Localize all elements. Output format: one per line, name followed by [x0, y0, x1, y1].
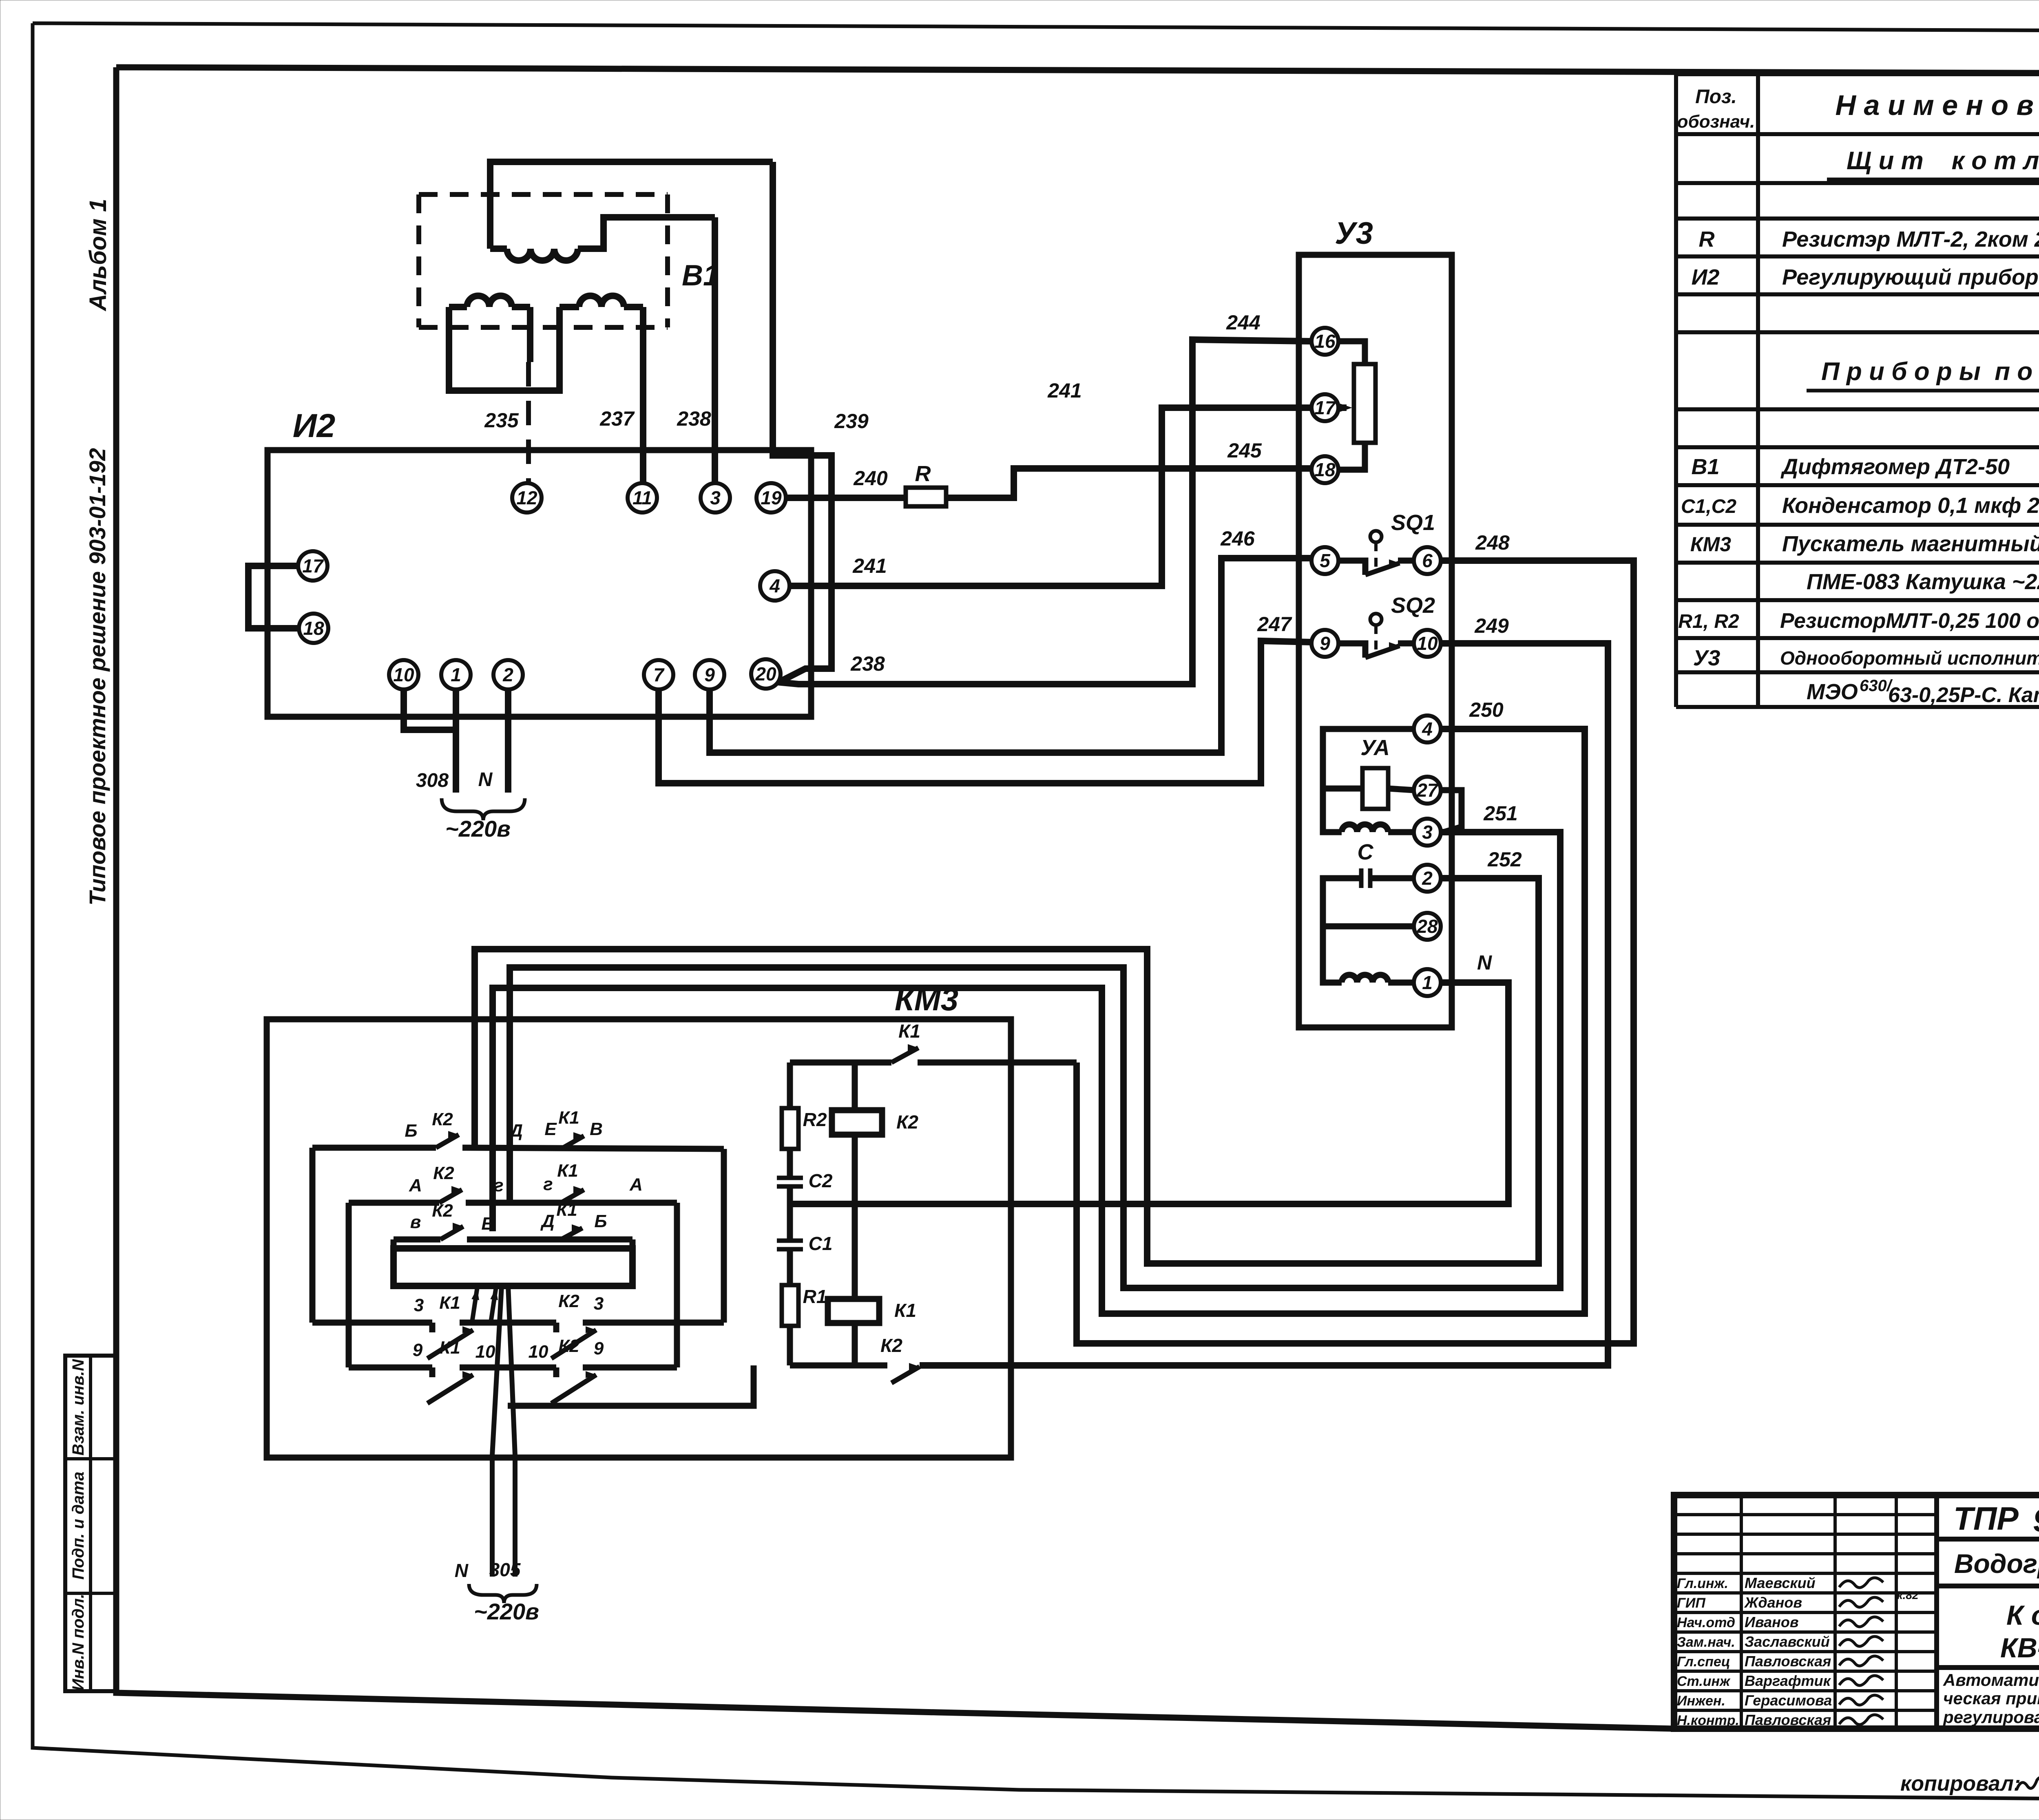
svg-text:И2: И2 — [1692, 265, 1720, 289]
terminal У3-2 — [1414, 865, 1441, 892]
svg-text:В: В — [590, 1119, 603, 1139]
B1 secondary winding left — [449, 304, 467, 310]
wire 246 from terminal 9 — [710, 558, 1311, 753]
svg-text:10: 10 — [475, 1342, 495, 1362]
svg-text:18: 18 — [1314, 459, 1336, 480]
SQ1 blade — [1365, 563, 1400, 575]
svg-text:1: 1 — [451, 664, 461, 685]
И2 hook terminal 10 to 1 — [404, 689, 456, 730]
transducer B1 dashed box — [419, 192, 668, 197]
wire 241 — [790, 408, 1347, 586]
svg-text:N: N — [455, 1560, 469, 1581]
svg-text:К о т е л: К о т е л — [2006, 1600, 2039, 1631]
svg-text:Подп. и дата: Подп. и дата — [69, 1472, 87, 1580]
svg-text:В1: В1 — [1691, 455, 1719, 479]
coil К2 body — [832, 1110, 882, 1135]
svg-text:Н.контр.: Н.контр. — [1677, 1713, 1739, 1728]
svg-text:Поз.: Поз. — [1695, 86, 1737, 108]
svg-text:238: 238 — [677, 407, 711, 430]
svg-text:копировал:: копировал: — [1900, 1772, 2021, 1796]
svg-text:248: 248 — [1475, 531, 1510, 554]
svg-text:К1: К1 — [556, 1200, 577, 1220]
wire 250 — [493, 729, 1585, 1314]
contact К2 rowD — [551, 1330, 596, 1358]
contact К1 row2 — [561, 1190, 584, 1203]
svg-text:Е: Е — [481, 1214, 494, 1234]
svg-text:Дифтягомер ДТ2-50: Дифтягомер ДТ2-50 — [1780, 455, 2010, 479]
contact К2 row3 — [440, 1226, 463, 1239]
curly brace motor — [469, 1584, 537, 1603]
svg-text:С2: С2 — [809, 1170, 833, 1191]
terminal И2-4 — [760, 571, 790, 601]
svg-text:N: N — [1477, 951, 1492, 974]
svg-text:ГИП: ГИП — [1677, 1595, 1706, 1611]
svg-text:1: 1 — [1422, 972, 1433, 993]
svg-text:К1: К1 — [439, 1338, 460, 1358]
КМ3 contact row D (3 K1 / K2 3) — [312, 1320, 432, 1326]
svg-text:г: г — [494, 1175, 503, 1195]
svg-text:Альбом 1: Альбом 1 — [85, 199, 111, 311]
terminal И2-9 — [695, 660, 724, 689]
svg-text:ческая принципиальная: ческая принципиальная — [1943, 1689, 2039, 1708]
terminal И2-18 — [299, 614, 328, 643]
svg-text:Зам.нач.: Зам.нач. — [1677, 1634, 1735, 1650]
svg-text:903-01-192: 903-01-192 — [2033, 1502, 2039, 1538]
terminal У3-5 — [1311, 547, 1338, 574]
svg-text:К1: К1 — [439, 1293, 460, 1313]
terminal И2-11 — [628, 483, 657, 512]
mechanical interlock bar — [394, 1248, 632, 1286]
svg-text:А: А — [409, 1175, 422, 1195]
wire 240 with resistor R — [786, 495, 906, 501]
terminal И2-19 — [756, 483, 786, 512]
svg-text:247: 247 — [1257, 613, 1292, 636]
svg-text:19: 19 — [761, 487, 782, 508]
terminal У3-28 — [1414, 913, 1441, 940]
svg-text:R: R — [915, 462, 931, 486]
wire 238 from B1 to terminal 3 — [712, 217, 718, 484]
terminal У3-17 — [1311, 394, 1338, 421]
svg-text:С1,С2: С1,С2 — [1681, 496, 1736, 517]
contact К1 rowE — [427, 1375, 473, 1403]
capacitor C2 plates — [777, 1176, 803, 1180]
terminal У3-10 — [1414, 630, 1441, 657]
svg-text:4: 4 — [769, 575, 780, 596]
svg-text:9: 9 — [413, 1340, 423, 1360]
svg-text:РезисторМЛТ-0,25 100 ом 0,25: РезисторМЛТ-0,25 100 ом 0,25 вт — [1780, 609, 2039, 633]
svg-text:R1: R1 — [803, 1286, 827, 1307]
svg-text:17: 17 — [302, 555, 324, 576]
svg-text:Конденсатор 0,1 мкф 250в: Конденсатор 0,1 мкф 250в — [1782, 493, 2039, 518]
contact К2 row1 — [436, 1135, 459, 1148]
svg-text:г: г — [543, 1174, 553, 1194]
wire 249 — [920, 643, 1608, 1365]
svg-text:251: 251 — [1483, 802, 1517, 825]
terminal У3-9 — [1311, 630, 1338, 657]
svg-text:в: в — [410, 1212, 421, 1232]
svg-text:2: 2 — [1422, 868, 1433, 889]
terminal И2-12 — [512, 483, 542, 512]
actuator У3 box — [1299, 255, 1452, 1027]
terminal У3-1 — [1414, 969, 1441, 996]
svg-text:Типовое проектное решение 9: Типовое проектное решение 903-01-192 — [84, 448, 110, 906]
svg-text:К2: К2 — [432, 1201, 453, 1221]
svg-text:Щ и т к о т л а: Щ и т к о т л а — [1847, 147, 2039, 175]
terminal И2-3 — [701, 483, 730, 512]
svg-text:Маевский: Маевский — [1745, 1575, 1816, 1591]
inner loop connector — [508, 1365, 754, 1406]
svg-text:237: 237 — [599, 407, 635, 430]
svg-text:308: 308 — [416, 770, 449, 791]
svg-text:240: 240 — [853, 467, 888, 490]
У3 internal bracket 4-27-3 — [1323, 729, 1414, 832]
svg-text:Павловская: Павловская — [1745, 1653, 1831, 1670]
svg-text:Заславский: Заславский — [1745, 1633, 1830, 1650]
svg-text:Водогрейные котлы типа КВ-: Водогрейные котлы типа КВ-ГМ — [1954, 1548, 2039, 1579]
svg-text:SQ2: SQ2 — [1391, 593, 1435, 618]
wire 248 — [1077, 561, 1634, 1343]
И2 terminal bracket 17-18 — [248, 566, 299, 628]
SQ2 limit switch — [1338, 643, 1365, 658]
svg-text:Регулирующий прибор Р25. 1.: Регулирующий прибор Р25. 1. 2 — [1782, 265, 2039, 289]
wire N — [790, 983, 1508, 1204]
svg-text:Пускатель магнитный реверсив: Пускатель магнитный реверсивный — [1782, 532, 2039, 556]
contact К2 row2 — [439, 1190, 462, 1203]
svg-text:Инжен.: Инжен. — [1677, 1693, 1725, 1709]
capacitor C1 plates — [777, 1239, 803, 1243]
svg-text:3: 3 — [414, 1295, 424, 1315]
У3 internal bracket 2-28-1 — [1323, 878, 1350, 983]
svg-text:Гл.инж.: Гл.инж. — [1677, 1576, 1728, 1591]
svg-text:R2: R2 — [803, 1109, 827, 1130]
svg-text:11: 11 — [632, 487, 652, 508]
terminal И2-17 — [298, 551, 327, 581]
svg-text:10: 10 — [1417, 633, 1438, 654]
svg-text:10: 10 — [393, 664, 414, 685]
wire 247 from terminal 7 — [659, 641, 1311, 783]
bottom К2 contact — [790, 1363, 887, 1369]
svg-text:241: 241 — [1047, 379, 1081, 402]
wiper arrow 241 — [1340, 404, 1352, 412]
svg-text:Взам. инв.N: Взам. инв.N — [69, 1359, 87, 1456]
svg-text:3: 3 — [1422, 822, 1433, 843]
SQ1 pin — [1370, 531, 1382, 542]
contact К1 row3 — [561, 1228, 582, 1239]
svg-text:Варгафтик: Варгафтик — [1745, 1672, 1831, 1689]
wire 235 — [527, 307, 533, 362]
terminal И2-7 — [644, 660, 673, 689]
КМ3 contact row 3 — [394, 1237, 440, 1243]
svg-text:Герасимова: Герасимова — [1745, 1692, 1832, 1709]
wire to 28 — [1323, 923, 1414, 930]
svg-text:28: 28 — [1416, 916, 1438, 937]
svg-text:16: 16 — [1314, 331, 1336, 352]
wire 305 motor — [508, 1286, 515, 1577]
svg-text:КМ3: КМ3 — [895, 981, 958, 1017]
svg-text:Однооборотный исполнительный: Однооборотный исполнительный механизм — [1780, 647, 2039, 669]
svg-text:2: 2 — [502, 664, 513, 685]
svg-text:10: 10 — [529, 1342, 548, 1362]
terminal И2-2 — [493, 660, 523, 689]
svg-text:К1: К1 — [898, 1020, 920, 1042]
У3 winding coil 2 — [1342, 975, 1388, 983]
terminal У3-6 — [1414, 547, 1441, 574]
svg-text:К2: К2 — [433, 1163, 454, 1183]
svg-text:П р и б о р ы п о н е с т Н: П р и б о р ы п о н е с т Н — [1821, 358, 2039, 386]
svg-text:3: 3 — [594, 1294, 604, 1314]
wire 251 — [510, 832, 1560, 1288]
svg-text:9: 9 — [704, 664, 715, 685]
svg-text:7: 7 — [653, 664, 665, 685]
svg-text:C: C — [1358, 840, 1374, 864]
svg-text:У3: У3 — [1335, 216, 1373, 251]
wire 252 — [475, 878, 1539, 1263]
svg-text:249: 249 — [1474, 614, 1509, 637]
motor drive arrows — [472, 1288, 477, 1321]
svg-text:9: 9 — [1320, 633, 1330, 654]
svg-text:Резистэр МЛТ-2, 2ком 2вт: Резистэр МЛТ-2, 2ком 2вт — [1782, 227, 2039, 252]
svg-text:К1: К1 — [894, 1300, 916, 1321]
svg-text:12: 12 — [516, 487, 537, 508]
svg-text:С1: С1 — [809, 1233, 833, 1254]
svg-text:Павловская: Павловская — [1745, 1712, 1831, 1728]
svg-text:4: 4 — [1422, 718, 1433, 740]
svg-text:18: 18 — [303, 618, 324, 639]
parts list table — [1676, 72, 2039, 76]
row1 loop verticals — [310, 1148, 316, 1323]
svg-text:Д: Д — [540, 1211, 555, 1231]
svg-text:к.82: к.82 — [1897, 1589, 1919, 1601]
svg-text:К2: К2 — [880, 1335, 902, 1356]
resistor R — [906, 488, 946, 506]
svg-text:Ст.инж: Ст.инж — [1677, 1674, 1731, 1689]
solenoid УА body — [1362, 768, 1388, 809]
contact К1 rowD — [427, 1330, 473, 1358]
У3 feedback potentiometer — [1354, 364, 1376, 443]
svg-text:305: 305 — [489, 1559, 521, 1580]
terminal И2-10 — [389, 660, 418, 689]
wire 237 — [640, 307, 646, 484]
svg-text:241: 241 — [852, 554, 887, 577]
svg-text:244: 244 — [1226, 311, 1260, 334]
svg-text:63-0,25Р-С. Катушка ~220В: 63-0,25Р-С. Катушка ~220В — [1888, 683, 2039, 707]
svg-text:А: А — [629, 1175, 643, 1195]
wire 238 horizontal from 20 — [777, 340, 1311, 684]
curly brace — [442, 798, 525, 820]
svg-text:К2: К2 — [558, 1291, 579, 1311]
SQ1 limit switch — [1338, 561, 1365, 575]
capacitor C plates — [1359, 868, 1364, 888]
contact К2 bottom — [891, 1367, 920, 1383]
terminal У3-18 — [1311, 456, 1338, 483]
svg-text:252: 252 — [1487, 848, 1522, 871]
svg-text:246: 246 — [1220, 527, 1255, 550]
svg-text:~220в: ~220в — [445, 816, 511, 842]
svg-text:5: 5 — [1320, 550, 1331, 571]
svg-text:регулирования разрежения: регулирования разрежения — [1943, 1707, 2039, 1727]
svg-text:Б: Б — [405, 1121, 417, 1141]
svg-text:Нач.отд: Нач.отд — [1677, 1615, 1735, 1630]
КМ3 contact row 1 — [312, 1145, 436, 1151]
svg-text:Е: Е — [544, 1119, 557, 1139]
terminal У3-4 — [1414, 716, 1441, 742]
svg-text:МЭО: МЭО — [1807, 680, 1858, 704]
svg-text:250: 250 — [1469, 698, 1504, 721]
wire 245 — [946, 468, 1311, 498]
B1 secondary winding right — [560, 304, 579, 310]
coil К1 body — [828, 1299, 879, 1323]
svg-text:ТПР: ТПР — [1953, 1500, 2019, 1537]
svg-text:Автоматизация. Схема электри: Автоматизация. Схема электри — [1943, 1670, 2039, 1690]
contact К2 rowE — [551, 1375, 596, 1403]
title block — [1674, 1495, 2039, 1729]
svg-text:И2: И2 — [293, 407, 336, 444]
terminal И2-20 — [751, 659, 781, 689]
КМ3 contact row E (9 K1 10 / 10 K2 9) — [349, 1365, 432, 1371]
svg-text:Инв.N подл.: Инв.N подл. — [69, 1594, 87, 1691]
svg-text:6: 6 — [1422, 550, 1433, 571]
КМ3 contact row 2 — [349, 1200, 439, 1206]
svg-text:17: 17 — [1314, 397, 1336, 418]
hook 27 to 3 — [1441, 790, 1462, 832]
wire N motor — [492, 1286, 502, 1577]
svg-text:К1: К1 — [558, 1108, 579, 1128]
contact К1 row1 — [561, 1136, 584, 1149]
svg-text:У3: У3 — [1693, 646, 1721, 670]
svg-text:КВ-ГМ- 10: КВ-ГМ- 10 — [2000, 1632, 2039, 1663]
regulator И2 box — [268, 450, 811, 717]
svg-text:SQ1: SQ1 — [1391, 510, 1435, 535]
svg-text:239: 239 — [834, 410, 869, 433]
SQ2 pin — [1370, 614, 1382, 625]
left margin stamp table — [65, 1356, 116, 1691]
interlock bar — [391, 1239, 397, 1248]
svg-text:245: 245 — [1227, 439, 1262, 462]
svg-text:ПМЕ-083 Катушка ~220в: ПМЕ-083 Катушка ~220в — [1807, 570, 2039, 594]
terminal У3-27 — [1414, 777, 1441, 804]
svg-text:R1, R2: R1, R2 — [1678, 611, 1739, 632]
B1 primary winding — [490, 162, 773, 249]
svg-text:К1: К1 — [557, 1161, 578, 1181]
svg-text:Д: Д — [508, 1121, 523, 1141]
svg-text:~220в: ~220в — [474, 1599, 539, 1624]
resistor R2 — [782, 1108, 798, 1149]
resistor R1 — [782, 1285, 798, 1326]
terminal И2-1 — [441, 660, 471, 689]
svg-text:235: 235 — [484, 409, 519, 432]
SQ2 blade — [1365, 646, 1400, 658]
svg-text:Б: Б — [594, 1211, 607, 1231]
svg-text:К2: К2 — [558, 1336, 579, 1356]
terminal У3-16 — [1311, 328, 1338, 355]
svg-text:R: R — [1699, 227, 1715, 252]
svg-text:9: 9 — [594, 1338, 604, 1358]
svg-text:Н а и м е н о в а н и е: Н а и м е н о в а н и е — [1835, 89, 2039, 121]
svg-text:К2: К2 — [896, 1111, 918, 1133]
contact К1 top — [891, 1048, 918, 1062]
КМ3 right section: R2 C2 C1 R1 chain — [790, 1060, 891, 1066]
svg-text:27: 27 — [1416, 780, 1439, 801]
supply wires 308 N — [453, 689, 459, 793]
terminal У3-3 — [1414, 819, 1441, 846]
svg-text:обознач.: обознач. — [1677, 112, 1755, 132]
svg-text:Иванов: Иванов — [1745, 1614, 1799, 1630]
wire 239 from B1 bus to terminal 20 — [773, 162, 832, 682]
svg-text:УА: УА — [1360, 736, 1390, 760]
svg-text:К2: К2 — [432, 1109, 453, 1129]
starter КМ3 box — [267, 1019, 1011, 1458]
У3 winding coil — [1342, 824, 1388, 832]
svg-text:N: N — [478, 769, 493, 791]
svg-text:238: 238 — [850, 652, 885, 675]
svg-text:Гл.спец: Гл.спец — [1677, 1654, 1730, 1670]
svg-text:Жданов: Жданов — [1744, 1594, 1802, 1611]
svg-text:20: 20 — [755, 663, 776, 685]
svg-text:КМ3: КМ3 — [1690, 533, 1731, 556]
svg-text:3: 3 — [710, 487, 721, 508]
B1 primary coil bumps — [507, 249, 578, 261]
